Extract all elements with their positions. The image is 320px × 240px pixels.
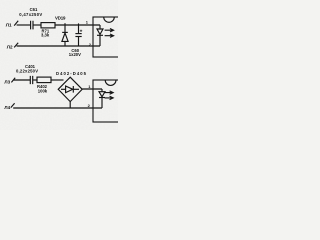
wire bridge bottom to rail — [69, 102, 71, 108]
svg-text:1x20V: 1x20V — [69, 52, 81, 57]
svg-text:3,3k: 3,3k — [41, 32, 50, 37]
wire top rail left — [17, 24, 31, 26]
svg-text:100k: 100k — [38, 88, 48, 93]
svg-text:Л1: Л1 — [6, 23, 12, 28]
wire C61 to R71 — [33, 24, 41, 26]
U2 notch — [105, 80, 116, 85]
wire R402 to bridge — [51, 79, 64, 81]
svg-text:VD19: VD19 — [55, 16, 66, 21]
zener diode VD19 — [64, 23, 66, 32]
terminal L1 — [14, 21, 18, 26]
svg-text:0,22x250V: 0,22x250V — [16, 68, 38, 73]
terminal L2 — [14, 43, 18, 48]
LED inside U1 — [99, 25, 101, 29]
svg-text:0,47x250V: 0,47x250V — [19, 12, 42, 17]
resistor R71 — [41, 23, 55, 28]
LED inside U2 — [101, 89, 103, 92]
wire bridge to opto pin1 — [82, 88, 102, 90]
svg-text:D402-D405: D402-D405 — [56, 71, 87, 76]
svg-text:Л2: Л2 — [7, 45, 13, 50]
capacitor C61 — [31, 21, 33, 30]
light arrows U2 — [105, 91, 114, 94]
terminal L4 — [11, 103, 15, 107]
optocoupler U1 box — [92, 24, 94, 26]
wire bottom rail of top channel — [17, 45, 100, 47]
capacitor C401 — [30, 76, 32, 84]
terminal L3 — [11, 78, 15, 83]
wire C401 to R402 — [33, 79, 37, 81]
paper background — [0, 0, 118, 130]
bridge rectifier D402-D405 — [58, 77, 82, 101]
capacitor C60 — [78, 23, 80, 33]
wire bottom channel left — [14, 79, 30, 81]
bridge inner diode — [61, 88, 66, 90]
wire R71 to opto pin1 — [55, 24, 100, 26]
U1 notch — [104, 17, 115, 22]
light arrows U1 — [105, 29, 114, 32]
resistor R402 — [37, 77, 51, 83]
optocoupler U2 box — [93, 80, 120, 122]
wire bottom rail — [13, 107, 102, 109]
svg-text:Л4: Л4 — [4, 105, 10, 110]
svg-text:Л3: Л3 — [4, 80, 10, 85]
